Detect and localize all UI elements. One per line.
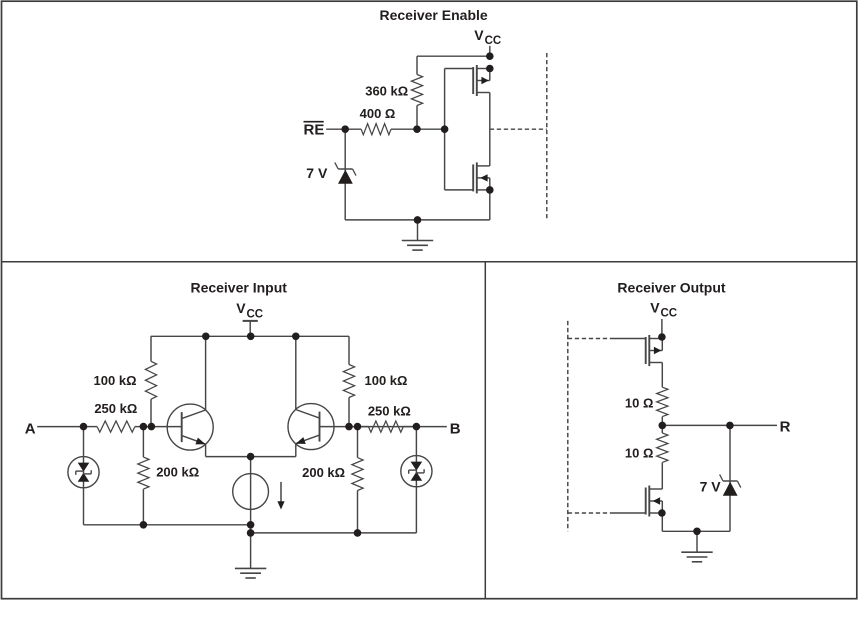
svg-text:400 Ω: 400 Ω bbox=[360, 106, 396, 121]
svg-text:200 kΩ: 200 kΩ bbox=[302, 465, 345, 480]
svg-text:CC: CC bbox=[661, 308, 678, 320]
svg-text:V: V bbox=[650, 299, 660, 315]
svg-text:Receiver Output: Receiver Output bbox=[617, 279, 725, 295]
svg-text:A: A bbox=[25, 420, 36, 437]
svg-text:100 kΩ: 100 kΩ bbox=[94, 373, 137, 388]
svg-text:B: B bbox=[450, 420, 461, 437]
svg-text:200 kΩ: 200 kΩ bbox=[156, 465, 199, 480]
svg-text:100 kΩ: 100 kΩ bbox=[365, 373, 408, 388]
svg-text:360 kΩ: 360 kΩ bbox=[365, 83, 408, 98]
svg-text:250 kΩ: 250 kΩ bbox=[368, 403, 411, 418]
svg-text:V: V bbox=[474, 27, 484, 43]
svg-text:7 V: 7 V bbox=[700, 479, 722, 495]
svg-text:10 Ω: 10 Ω bbox=[625, 396, 654, 411]
svg-text:Receiver Enable: Receiver Enable bbox=[380, 7, 488, 23]
svg-text:250 kΩ: 250 kΩ bbox=[94, 401, 137, 416]
svg-text:V: V bbox=[236, 300, 246, 316]
svg-text:CC: CC bbox=[247, 308, 264, 320]
svg-text:7 V: 7 V bbox=[306, 165, 328, 181]
svg-text:R: R bbox=[780, 418, 791, 435]
svg-text:RE: RE bbox=[304, 121, 325, 138]
svg-text:10 Ω: 10 Ω bbox=[625, 446, 654, 461]
svg-text:CC: CC bbox=[485, 35, 502, 47]
svg-text:Receiver Input: Receiver Input bbox=[190, 279, 287, 295]
